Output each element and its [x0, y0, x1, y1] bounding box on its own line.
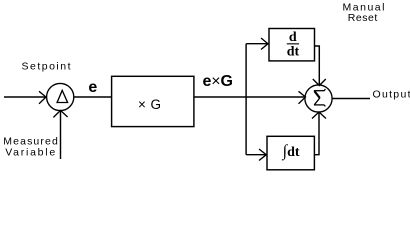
- svg-text:Reset: Reset: [348, 12, 378, 24]
- svg-text:Output: Output: [373, 89, 410, 101]
- svg-text:dt: dt: [287, 45, 300, 60]
- svg-text:Measured: Measured: [3, 135, 58, 147]
- svg-text:× G: × G: [138, 97, 161, 112]
- svg-text:e: e: [88, 79, 97, 96]
- svg-text:e×G: e×G: [203, 73, 234, 90]
- svg-text:d: d: [289, 30, 297, 45]
